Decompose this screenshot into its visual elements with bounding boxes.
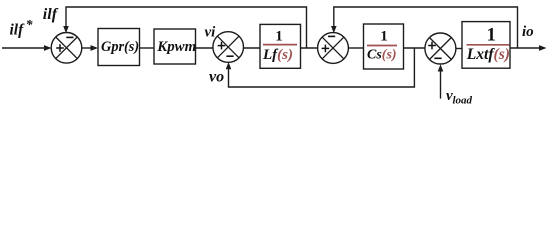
wire S1 to Gpr block with arrowhead <box>82 45 98 51</box>
wire S4 to Lxtf block <box>456 48 462 50</box>
wire input arrow into summing junction S1 <box>2 45 52 51</box>
wire feedback vo: tap after Cs block, down, left, up into S2 bottom <box>226 48 415 87</box>
block Gpr(s) <box>98 29 140 66</box>
svg-text:Lxtf(s): Lxtf(s) <box>466 46 510 63</box>
svg-text:load: load <box>453 95 473 107</box>
summing junction S1 <box>51 33 82 64</box>
node v_load label <box>446 88 473 107</box>
block 1/Lf(s) <box>260 24 301 68</box>
svg-text:ilf: ilf <box>10 22 26 39</box>
wire Gpr to Kpwm <box>140 47 155 49</box>
svg-text:*: * <box>26 17 33 32</box>
node ilf* input label <box>10 17 33 39</box>
wire feedback ilf: tap after Lf block, up, left, down into S1 top <box>63 7 306 48</box>
block Kpwm <box>154 29 196 64</box>
svg-text:1: 1 <box>275 29 283 45</box>
block 1/Cs(s) <box>364 24 404 69</box>
node ilf feedback label <box>43 6 59 23</box>
svg-text:Kpwm: Kpwm <box>156 39 196 55</box>
wire feedback io: tap after Lxtf block, up, left, down into S3 top <box>331 7 518 48</box>
node vi label <box>205 24 217 40</box>
wire Cs to summing junction S4 <box>404 47 426 49</box>
summing junction S4 <box>425 33 456 64</box>
node vo label <box>209 69 224 86</box>
block 1/Lxtf(s) <box>462 22 510 69</box>
summing junction S3 <box>318 33 349 64</box>
wire S3 to Cs block <box>348 47 363 49</box>
summing junction S2 <box>213 32 244 63</box>
wire Lf to summing junction S3 <box>301 47 319 49</box>
svg-text:Lf(s): Lf(s) <box>262 47 293 63</box>
wire Kpwm to summing junction S2 <box>196 47 214 49</box>
wire S2 to Lf block <box>244 47 261 49</box>
svg-text:io: io <box>522 24 534 40</box>
svg-text:Cs(s): Cs(s) <box>367 48 397 63</box>
svg-text:Gpr(s): Gpr(s) <box>101 39 139 55</box>
svg-text:vi: vi <box>205 24 217 40</box>
svg-text:1: 1 <box>487 26 496 46</box>
wire output io arrow <box>510 45 547 51</box>
svg-text:ilf: ilf <box>43 6 59 23</box>
svg-text:vo: vo <box>209 69 224 86</box>
wire vload input into S4 bottom <box>438 64 444 98</box>
svg-text:1: 1 <box>380 28 388 44</box>
node io output label <box>522 24 534 40</box>
